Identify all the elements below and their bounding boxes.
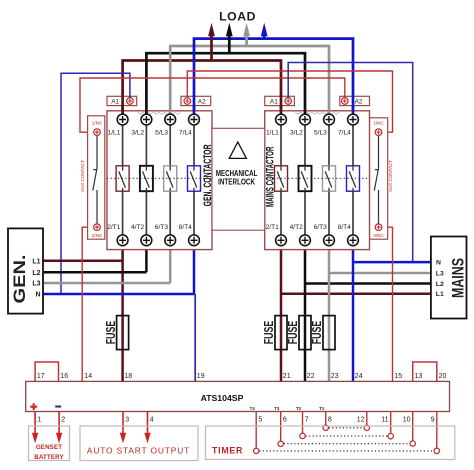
wire LOAD bus L1 (dark red) (123, 61, 281, 116)
wire GEN L3 (gray) to 6/T3 (43, 246, 170, 283)
svg-text:7: 7 (305, 416, 309, 423)
aux terminal 1/NC (92, 121, 103, 136)
svg-text:14: 14 (84, 373, 92, 380)
svg-text:T2: T2 (296, 406, 302, 411)
polarity labels + and - (30, 403, 37, 410)
svg-text:MAINS: MAINS (449, 258, 467, 298)
GENSET BATTERY box (29, 426, 70, 461)
svg-text:4/T2: 4/T2 (290, 224, 304, 231)
MAINS source block (431, 237, 467, 319)
wire pole stub x=305.0 (304, 125, 306, 235)
svg-text:1: 1 (37, 416, 41, 423)
svg-text:6/T3: 6/T3 (155, 224, 169, 231)
svg-text:2: 2 (61, 416, 65, 423)
fuse F1 (104, 316, 129, 350)
mains contactor MC body (265, 111, 370, 250)
wire GEN L2 (black) to 4/T2 (43, 246, 146, 273)
svg-text:8/T4: 8/T4 (179, 224, 193, 231)
terminal gen 6/T3 (155, 224, 176, 246)
svg-text:INTERLOCK: INTERLOCK (218, 178, 255, 187)
svg-text:6/T3: 6/T3 (314, 224, 328, 231)
wire gen aux 1/NC to mains coil A2 (red) (80, 78, 345, 132)
contact pole gen 1 (116, 166, 129, 191)
svg-text:FUSE: FUSE (286, 321, 300, 345)
AUTO START OUTPUT box (80, 426, 198, 461)
fuse F4 (310, 316, 335, 350)
svg-text:21: 21 (283, 373, 291, 380)
terminal mains 2/T1 (266, 224, 287, 246)
wire mains coil A1 to MAINS neutral (blue) (288, 63, 413, 263)
terminal mains 6/T3 (314, 224, 335, 246)
svg-text:L2: L2 (436, 281, 444, 288)
mechanical interlock box (212, 128, 265, 230)
aux terminal 2/NC (92, 224, 103, 238)
terminal gen 1/L1 (108, 114, 128, 136)
ATS timer terminal 9 wire (431, 412, 440, 454)
wire pole stub x=122.6 (122, 125, 124, 235)
wire overlay L3 drops into 5/L3 terminals (170, 110, 329, 115)
wire MAINS L3 (gray) from 6/T3 down to ATS 23 (329, 246, 431, 382)
svg-text:12: 12 (357, 416, 365, 423)
wire pole stub x=353.0 (352, 125, 354, 235)
dotted link timer pair 3 (284, 443, 410, 445)
terminal gen 7/L4 (179, 114, 199, 136)
fuse F2 (262, 316, 287, 350)
svg-text:5/L3: 5/L3 (155, 129, 168, 136)
wire MAINS N (blue) from 8/T4 down to ATS 24 (353, 246, 431, 382)
svg-text:20: 20 (439, 373, 447, 380)
svg-text:18: 18 (124, 373, 132, 380)
ATS output terminal 4 arrow (144, 412, 153, 444)
wire overlay N drops into 7/L4 terminals (194, 96, 353, 116)
svg-text:MECHANICAL: MECHANICAL (216, 169, 258, 178)
svg-text:10: 10 (403, 416, 411, 423)
aux contact box at x=369.6 (370, 118, 388, 239)
mechanical interlock triangle (229, 142, 246, 158)
zigzag decoration gen contactor (138, 112, 181, 114)
svg-text:3/NC: 3/NC (373, 233, 384, 238)
svg-text:7/L4: 7/L4 (338, 129, 351, 136)
contact pole mains 3 (323, 166, 336, 191)
gen contactor coil terminal A1 (107, 96, 137, 105)
wire pole stub x=329.0 (328, 125, 330, 235)
svg-text:13: 13 (415, 373, 423, 380)
zigzag decoration mains contactor (295, 112, 339, 114)
svg-text:1/L1: 1/L1 (108, 129, 121, 136)
svg-text:4: 4 (150, 416, 154, 423)
svg-text:23: 23 (331, 373, 339, 380)
svg-text:19: 19 (197, 373, 205, 380)
gen contactor GC body (107, 111, 212, 250)
wire LOAD bus N (blue) (194, 39, 353, 116)
terminal mains 1/L1 (266, 114, 286, 136)
LOAD arrow up at x=246.6 (243, 23, 250, 46)
wire LOAD bus L2 (black) (146, 53, 305, 116)
svg-text:L1: L1 (436, 291, 444, 298)
svg-text:L3: L3 (436, 271, 444, 278)
svg-text:ATS104SP: ATS104SP (201, 393, 244, 403)
aux contact box at x=87.6 (88, 116, 105, 239)
terminal gen 3/L2 (131, 114, 151, 136)
ATS104SP controller box (26, 381, 450, 411)
terminal mains 4/T2 (290, 224, 311, 246)
wire gen coil A1 to GEN neutral (blue) (61, 73, 130, 294)
terminal mains 3/L2 (290, 114, 310, 136)
label MECHANICAL INTERLOCK (216, 169, 258, 187)
dotted link timer pair 4 (259, 450, 433, 452)
svg-text:L2: L2 (32, 270, 40, 277)
svg-text:T4: T4 (250, 406, 256, 411)
aux contact switch (374, 135, 378, 223)
GEN source block (8, 228, 43, 313)
wire mains aux 3/NC down to ATS 15 (red) (382, 227, 393, 381)
aux terminal 3/NC (373, 224, 384, 238)
svg-text:T1: T1 (319, 406, 325, 411)
svg-text:17: 17 (37, 373, 45, 380)
wire pole stub x=170.2 (169, 125, 171, 235)
gen contactor coil terminal A2 (181, 96, 211, 105)
aux terminal 1/NC (373, 121, 384, 136)
LOAD arrow up at x=229.3 (226, 23, 233, 53)
mains contactor coil terminal A1 (265, 96, 295, 105)
svg-text:LOAD: LOAD (219, 10, 256, 24)
svg-text:FUSE: FUSE (310, 321, 324, 345)
svg-text:A1: A1 (270, 99, 278, 106)
terminal gen 5/L3 (155, 114, 175, 136)
svg-text:1/L1: 1/L1 (266, 129, 279, 136)
wire pole stub x=281.0 (280, 125, 282, 235)
svg-text:8/T4: 8/T4 (338, 224, 352, 231)
svg-text:L3: L3 (32, 281, 40, 288)
terminal mains 8/T4 (338, 224, 359, 246)
ATS output terminal 1 arrow (32, 412, 41, 444)
svg-text:2/T1: 2/T1 (107, 224, 121, 231)
ATS output terminal 3 arrow (120, 412, 129, 444)
svg-text:GENSET: GENSET (36, 444, 62, 451)
wire GEN N down to ATS 19 (navy) (194, 294, 196, 381)
aux contact switch (93, 135, 97, 223)
ATS timer terminal 7 wire (300, 412, 309, 439)
svg-text:N: N (436, 260, 441, 267)
terminal gen 4/T2 (131, 224, 152, 246)
contact pole gen 3 (164, 166, 177, 191)
interlock dashed linkage line (92, 177, 381, 179)
svg-text:N: N (35, 292, 40, 299)
terminal mains 5/L3 (314, 114, 334, 136)
svg-text:AUX CONTACT: AUX CONTACT (80, 160, 85, 192)
contact pole mains 4 (347, 166, 360, 191)
terminal gen 2/T1 (107, 224, 128, 246)
svg-text:MAINS CONTACTOR: MAINS CONTACTOR (265, 147, 277, 208)
svg-text:3/L2: 3/L2 (131, 129, 144, 136)
svg-text:5: 5 (258, 416, 262, 423)
contact pole mains 2 (299, 166, 312, 191)
terminal mains 7/L4 (338, 114, 358, 136)
wire MAINS L1 (dark red) from 2/T1 down to ATS 21 (281, 246, 431, 382)
svg-text:A1: A1 (111, 99, 119, 106)
wire pole stub x=146.4 (145, 125, 147, 235)
svg-text:3/L2: 3/L2 (290, 129, 303, 136)
mains contactor coil terminal A2 (340, 96, 370, 105)
svg-text:BATTERY: BATTERY (34, 454, 64, 461)
dotted link timer pair 2 (306, 435, 388, 437)
svg-text:9: 9 (431, 416, 435, 423)
svg-text:7/L4: 7/L4 (179, 129, 192, 136)
svg-text:L1: L1 (32, 258, 40, 265)
svg-text:TIMER: TIMER (212, 445, 243, 455)
ATS timer terminal 10 wire (403, 412, 416, 447)
LOAD arrow up at x=264.2 (261, 23, 268, 39)
svg-text:24: 24 (355, 373, 363, 380)
svg-text:1/NC: 1/NC (373, 121, 384, 126)
TIMER box (206, 426, 455, 460)
ATS top terminal numbers (37, 373, 447, 380)
svg-text:16: 16 (60, 373, 68, 380)
svg-text:1/NC: 1/NC (92, 121, 103, 126)
ATS timer terminal 6 wire (278, 412, 287, 447)
contact pole gen 2 (140, 166, 153, 191)
svg-text:A2: A2 (198, 99, 206, 106)
svg-text:GEN.: GEN. (11, 255, 29, 304)
svg-text:FUSE: FUSE (262, 321, 276, 345)
contact pole gen 4 (188, 166, 201, 191)
wire GEN L1 (dark red) to 2/T1 and down to ATS 18 (43, 246, 123, 382)
GEN terminal labels L1 L2 L3 N (32, 258, 40, 298)
svg-text:4/T2: 4/T2 (131, 224, 145, 231)
wire GEN N (blue) to 8/T4 (43, 246, 195, 294)
ATS output terminal 2 arrow (56, 412, 65, 444)
ATS timer terminal 5 wire (254, 412, 263, 454)
ATS timer terminal 11 wire (381, 412, 393, 439)
wire pole stub x=194.0 (193, 125, 195, 235)
LOAD arrow up at x=211.5 (208, 23, 215, 61)
svg-text:T3: T3 (274, 406, 280, 411)
ATS terminal labels T4 T3 T2 T1 (250, 406, 325, 411)
wire overlay L1 drops into 1/L1 terminals (123, 96, 281, 116)
dotted link timer pair 1 (329, 427, 364, 429)
terminal gen 8/T4 (179, 224, 200, 246)
svg-text:11: 11 (381, 416, 388, 423)
wire LOAD bus L3 (gray) (170, 46, 329, 116)
fuse F3 (286, 316, 311, 350)
svg-text:2/T1: 2/T1 (266, 224, 280, 231)
svg-text:FUSE: FUSE (104, 321, 118, 345)
svg-text:2/NC: 2/NC (92, 233, 103, 238)
svg-text:AUTO START OUTPUT: AUTO START OUTPUT (87, 446, 190, 456)
svg-text:AUX.CONTACT: AUX.CONTACT (388, 160, 393, 192)
svg-text:6: 6 (283, 416, 287, 423)
svg-text:A2: A2 (355, 99, 363, 106)
jumper terminals 13-20 (413, 362, 437, 381)
wire gen coil A2 to mains aux 1/NC (red) (187, 71, 392, 132)
contact pole mains 1 (275, 166, 288, 191)
svg-text:5/L3: 5/L3 (314, 129, 327, 136)
svg-text:22: 22 (307, 373, 315, 380)
svg-text:15: 15 (394, 373, 402, 380)
svg-text:8: 8 (328, 416, 332, 423)
wire overlay L2 drops into 3/L2 terminals (146, 110, 305, 115)
svg-text:3: 3 (125, 416, 129, 423)
ATS timer terminal 12 wire (357, 412, 370, 431)
wire gen aux 2/NC down to ATS 14 (red) (82, 227, 94, 381)
ATS timer terminal 8 wire (323, 412, 332, 431)
wire overlay coil stubs to A1/A2 screws (130, 96, 288, 98)
MAINS terminal labels N L3 L2 L1 (436, 260, 444, 299)
jumper terminals 17-16 (35, 362, 58, 381)
wire MAINS L2 (black) from 4/T2 down to ATS 22 (305, 246, 431, 382)
